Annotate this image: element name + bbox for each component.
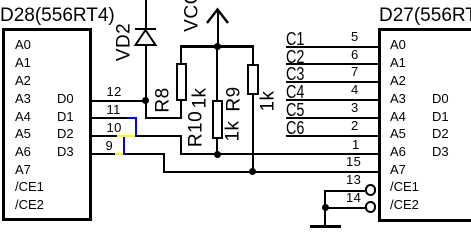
D28 pin label A6 [15, 145, 31, 158]
label VD2 [115, 23, 134, 61]
IC D28 title [0, 6, 115, 25]
wire R8 bottom lead [180, 101, 182, 119]
wire C1 [286, 46, 378, 48]
label R9 value 1k [258, 90, 277, 111]
wire R8 top lead [180, 45, 182, 64]
diode VD2 cathode bar [135, 28, 156, 31]
label C2 [286, 48, 304, 66]
pin number 5 [351, 30, 359, 43]
D28 pin label D0 [57, 92, 74, 105]
D28 pin label D1 [57, 110, 74, 123]
IC D28 box [2, 28, 92, 221]
D27 pin label D1 [432, 110, 449, 123]
D28 pin label A2 [15, 74, 31, 87]
pin number 15 [346, 155, 361, 168]
pin number 1 [352, 138, 360, 151]
node D0/VD2 junction [142, 97, 149, 104]
D27 pin label A1 [390, 56, 406, 69]
wire C4 [286, 99, 378, 101]
label R8 [154, 87, 173, 112]
label C3 [286, 65, 304, 83]
resistor R8 [176, 63, 188, 101]
D28 pin label D3 [57, 145, 74, 158]
D28 pin label /CE1 [15, 180, 44, 193]
label C5 [286, 101, 304, 119]
D28 pin label A3 [15, 92, 31, 105]
D27 pin label A2 [390, 74, 406, 87]
pin number 12 [107, 85, 122, 98]
power VCC stem [217, 9, 219, 47]
wire D2 long to D27 pin15 [163, 171, 378, 173]
wire yellow overlap row9 [115, 153, 123, 155]
D27 pin label /CE2 [390, 198, 419, 211]
diode VD2 bottom lead [145, 46, 147, 101]
D27 pin label A5 [390, 127, 406, 140]
wire yellow overlap row10 [117, 135, 135, 137]
pin number 13 [346, 173, 361, 186]
D28 pin label A0 [15, 38, 31, 51]
D27 pin label /CE1 [390, 180, 419, 193]
wire CE tie vertical [324, 190, 326, 226]
wire R10 bottom lead [216, 139, 218, 154]
pin number 11 [107, 103, 121, 116]
label C1 [286, 30, 304, 48]
D28 pin label D2 [57, 127, 74, 140]
wire D1 continuation row10 [137, 135, 182, 137]
D28 pin label A5 [15, 127, 31, 140]
diode VD2 top lead [145, 0, 147, 28]
diode VD2 triangle [133, 28, 158, 48]
wire R9 top lead [252, 45, 254, 64]
wire D2 blue vertical [123, 135, 125, 156]
wire D2 pin10 stub [89, 135, 118, 137]
wire D1 blue horizontal [127, 117, 137, 119]
power VCC arrow [204, 6, 232, 26]
label R9 [225, 86, 244, 111]
pin number 14 [346, 191, 361, 204]
D27 pin label D3 [432, 145, 449, 158]
D27 pin label D0 [432, 92, 449, 105]
wire C3 [286, 81, 378, 83]
wire D0 to R8 [145, 117, 183, 119]
wire D1 blue vertical [135, 117, 137, 137]
D28 pin label A4 [15, 110, 31, 123]
label VCC [183, 0, 202, 32]
wire R10 top lead [216, 45, 218, 101]
wire C6 [286, 135, 378, 137]
wire D3 pin9 stub [89, 153, 116, 155]
pin number 9 [106, 139, 114, 152]
resistor R9 [247, 64, 259, 95]
wire D1 long to D27 pin1 [180, 153, 378, 155]
D27 pin label A0 [390, 38, 406, 51]
node R10 junction [214, 151, 221, 158]
wire C5 [286, 117, 378, 119]
wire VCC rail [180, 45, 254, 48]
label R10 value 1k [223, 120, 242, 141]
D27 pin label A3 [390, 92, 406, 105]
bubble pin13 [365, 184, 377, 196]
wire D1 drop to row9 [180, 135, 182, 156]
pin number 4 [351, 83, 359, 96]
pin number 7 [351, 65, 359, 78]
wire D1 pin11 stub [89, 117, 127, 119]
label C4 [286, 83, 304, 101]
label R10 [186, 111, 205, 147]
D27 pin label A6 [390, 145, 406, 158]
wire /CE1 D27 [325, 190, 365, 192]
D28 pin label A1 [15, 56, 31, 69]
pin number 10 [107, 121, 122, 134]
pin number 6 [351, 48, 359, 61]
ground [310, 225, 341, 228]
node R9 junction [249, 168, 256, 175]
D28 pin label A7 [15, 163, 31, 176]
label C6 [286, 119, 304, 137]
wire D0 vertical jog [145, 100, 147, 119]
D27 pin label D2 [432, 127, 449, 140]
D27 pin label A7 [390, 163, 406, 176]
IC D27 box [378, 28, 471, 222]
wire D2 drop to row15 [163, 153, 165, 173]
node CE junction [322, 204, 329, 211]
pin number 3 [351, 101, 359, 114]
pin number 2 [351, 119, 359, 132]
IC D27 title [379, 6, 471, 25]
resistor R10 [212, 100, 224, 139]
wire D2 continuation row9 [125, 153, 165, 155]
D28 pin label /CE2 [15, 198, 44, 211]
D27 pin label A4 [390, 110, 406, 123]
wire /CE2 D27 [325, 207, 365, 209]
label R8 value 1k [190, 87, 209, 108]
wire R9 bottom lead [252, 95, 254, 172]
wire C2 [286, 63, 378, 65]
node VCC rail junction [214, 43, 221, 50]
wire D0 pin12 [89, 100, 146, 102]
bubble pin14 [365, 201, 377, 213]
